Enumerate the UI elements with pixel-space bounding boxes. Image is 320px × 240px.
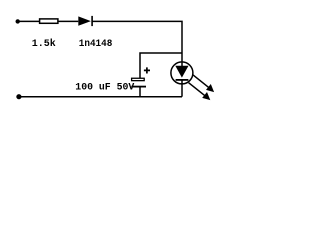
wire: capacitor branch from cap top up and right to LED line	[140, 53, 182, 78]
svg-text:100 uF 50V: 100 uF 50V	[75, 83, 135, 94]
capacitor C1 bottom plate	[131, 86, 146, 88]
wire: LED internal anode lead	[181, 62, 183, 67]
capacitor C1 plus sign	[144, 67, 150, 73]
LED D2 triangle	[175, 66, 188, 78]
diode D1 1n4148 (anode triangle)	[78, 16, 91, 25]
svg-text:1n4148: 1n4148	[79, 39, 113, 50]
wire: resistor to diode	[58, 20, 78, 22]
svg-text:1.5k: 1.5k	[32, 38, 56, 50]
wire: top-left dot to resistor	[18, 20, 40, 22]
LED light arrow 2 (lower)	[189, 83, 205, 96]
node: top-left input terminal dot	[16, 19, 20, 23]
wire: LED bottom lead to bottom rail	[181, 80, 183, 97]
diode D1 cathode bar	[91, 16, 93, 26]
LED D2 circle	[171, 62, 193, 84]
wire: bottom rail	[19, 96, 183, 98]
node: bottom-left input terminal dot	[16, 94, 21, 99]
LED light arrow 1 (upper)	[192, 74, 208, 87]
wire: capacitor bottom lead to bottom rail	[139, 87, 141, 97]
resistor R1 1.5k	[40, 19, 58, 23]
LED D2 cathode bar	[176, 79, 189, 81]
capacitor C1 top plate (positive)	[132, 78, 145, 80]
wire: diode to top-right corner, down to LED	[92, 21, 182, 62]
